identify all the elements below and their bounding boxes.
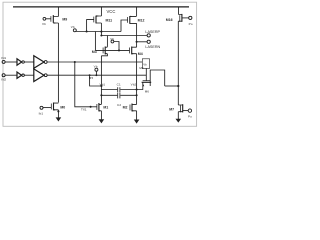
port Ib1 circle <box>40 106 43 109</box>
port IN2 circle <box>2 74 5 77</box>
transistor M11 <box>94 15 102 23</box>
svg-text:M11: M11 <box>106 18 113 22</box>
svg-text:M0: M0 <box>60 106 65 110</box>
transistor M9 <box>51 15 59 24</box>
svg-text:V b2: V b2 <box>131 82 137 86</box>
ground M1 <box>99 119 105 123</box>
wire M6 left arm to ladder <box>137 88 143 90</box>
wire M0 gate lead <box>43 107 51 109</box>
wire row2 bus <box>47 74 146 76</box>
transistor M6 rotated <box>142 81 152 88</box>
port IN1 circle <box>2 60 5 63</box>
wire M3 source jog and column <box>101 54 107 105</box>
svg-text:V b: V b <box>110 37 114 41</box>
wire M9 drain column <box>57 7 59 103</box>
node Vb4 stem junction <box>95 74 97 76</box>
node ladder bottom-left junction <box>100 94 102 96</box>
wire M3 drain riser <box>106 36 108 47</box>
svg-text:C 2: C 2 <box>117 103 121 107</box>
svg-text:M12: M12 <box>138 19 145 23</box>
node row1 tap junction <box>74 61 76 63</box>
wire right vertical A <box>177 21 179 105</box>
wire M6 gate stem <box>145 68 147 80</box>
wire row1 tap route to M1 gate <box>75 62 91 107</box>
wire LASERN stub <box>137 41 147 43</box>
svg-text:V b: V b <box>94 64 98 68</box>
svg-text:M1: M1 <box>103 106 108 110</box>
inverter U4 large <box>34 69 47 82</box>
inverter U1 small <box>17 59 24 65</box>
wire ladder top <box>101 89 136 91</box>
svg-text:V b: V b <box>42 22 46 26</box>
port Vb3 circle <box>111 40 114 43</box>
svg-text:M7: M7 <box>169 108 174 112</box>
svg-text:IN2: IN2 <box>1 77 6 81</box>
transistor M3 <box>103 47 108 55</box>
svg-text:P o: P o <box>189 22 193 26</box>
wire M7 source stem <box>177 112 179 119</box>
svg-text:M6: M6 <box>145 89 149 93</box>
wire M6 to vertical A <box>165 85 179 87</box>
node vertical A junction <box>177 85 179 87</box>
transistor M12 <box>128 16 137 24</box>
node ladder top-right junction <box>136 88 138 90</box>
wire Vb3 lead <box>114 42 119 51</box>
svg-text:M2: M2 <box>123 106 128 110</box>
transistor M16 <box>178 14 188 22</box>
port Vb2 circle <box>73 29 76 32</box>
port Po top circle <box>189 16 192 19</box>
svg-text:LASERP: LASERP <box>145 30 160 34</box>
svg-text:V b1: V b1 <box>100 82 106 86</box>
port LASERP circle <box>147 34 150 37</box>
port Vb4 circle <box>95 68 98 71</box>
ground M7 <box>176 119 182 123</box>
wire U1 to U2 <box>25 61 34 63</box>
port LASERN circle <box>147 40 150 43</box>
node LASERN junction <box>136 41 138 43</box>
wire M11 drain <box>100 23 102 36</box>
node M1 gate junction <box>90 106 92 108</box>
wire IN1 lead <box>5 61 17 63</box>
wire row1 bus <box>47 61 142 63</box>
wire M4 source column <box>136 54 138 105</box>
svg-text:LASERN: LASERN <box>145 45 160 49</box>
wire LASERP rail W2 <box>101 35 146 37</box>
svg-text:V b: V b <box>71 25 75 29</box>
svg-text:Vb: Vb <box>143 62 147 66</box>
transistor M1 <box>97 103 102 111</box>
wire M0 source stem <box>57 110 59 118</box>
svg-text:M9: M9 <box>62 18 67 22</box>
wire M12 source column <box>136 7 138 16</box>
wire M1 source stem <box>100 111 102 120</box>
node M0 source junction <box>57 110 59 112</box>
wire VCC rail <box>13 6 189 8</box>
node gate bus junction <box>118 49 120 51</box>
node L drop junction <box>100 85 102 87</box>
box Vb5 port <box>142 59 149 69</box>
wire M6 loop <box>150 70 165 86</box>
wire U3 to U4 <box>25 74 34 76</box>
ground M0 <box>56 117 62 121</box>
wire M2 source stem <box>136 111 138 120</box>
transistor M4 <box>130 47 137 55</box>
port Po bottom circle <box>188 109 191 112</box>
svg-text:M3: M3 <box>92 50 97 54</box>
wire row2 drop to ladder <box>90 75 102 86</box>
transistor M7 <box>178 104 188 112</box>
wire M9 gate lead <box>46 18 51 20</box>
capacitor C1 <box>118 87 120 92</box>
transistor M0 <box>51 103 58 111</box>
svg-text:P o: P o <box>188 114 192 118</box>
node M11 drain junction W2 <box>100 34 102 36</box>
capacitor C2 <box>118 93 120 98</box>
svg-text:M4: M4 <box>138 52 143 56</box>
svg-text:VCC: VCC <box>107 9 116 14</box>
svg-text:M5: M5 <box>139 66 143 70</box>
wire bias branch to gate bus <box>94 32 96 51</box>
wire IN2 lead <box>5 74 17 76</box>
border frame <box>3 2 197 126</box>
inverter U3 small <box>17 72 24 78</box>
node M11 drain junction W1 <box>100 31 102 33</box>
node ladder bottom-right junction <box>136 94 138 96</box>
wire M1 gate lead <box>91 106 97 108</box>
wire ladder bottom <box>101 94 136 96</box>
wire M11 source column <box>100 7 102 16</box>
svg-text:C 1: C 1 <box>117 82 121 86</box>
wire Vb4 stem <box>95 71 97 75</box>
svg-text:I b1: I b1 <box>39 112 44 116</box>
node row2 drop junction <box>89 74 91 76</box>
svg-text:IN1: IN1 <box>1 56 6 60</box>
transistor M2 <box>130 104 137 112</box>
wire M11 gate lead to bias <box>87 20 94 32</box>
port Vbp circle <box>43 17 46 20</box>
wire M12 drain column <box>136 23 138 47</box>
wire M12 gate lead <box>121 20 128 32</box>
svg-text:M16: M16 <box>166 18 173 22</box>
wire pair gate bus <box>95 49 129 51</box>
wire M16 source drop <box>178 7 180 15</box>
node bias junction M11 <box>86 30 88 32</box>
svg-text:TX1: TX1 <box>81 108 87 112</box>
inverter U2 large <box>34 56 47 69</box>
ground M2 <box>134 120 140 124</box>
wire bias W1 <box>76 31 121 33</box>
